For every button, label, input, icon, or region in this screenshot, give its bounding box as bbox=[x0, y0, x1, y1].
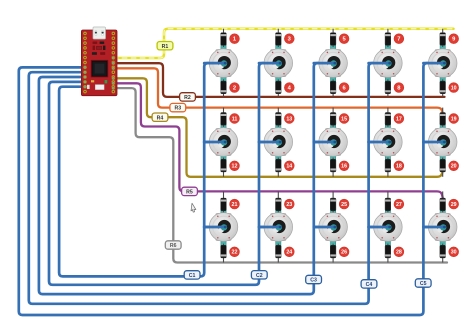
stem above SW1 bbox=[221, 45, 226, 63]
svg-text:28: 28 bbox=[396, 250, 402, 256]
svg-text:17: 17 bbox=[396, 116, 402, 122]
stem above SW3 bbox=[331, 45, 336, 63]
stem below SW12 bbox=[276, 227, 281, 246]
diode D9 bbox=[440, 29, 446, 47]
designator badge 21 bbox=[230, 199, 240, 209]
rotary encoder SW1 bbox=[209, 49, 238, 78]
designator badge 28 bbox=[394, 247, 404, 257]
blue stub into SW8 center bbox=[314, 141, 335, 144]
diode D22 bbox=[221, 244, 227, 263]
svg-text:C3: C3 bbox=[310, 278, 317, 284]
wire C4 (blue column net) bbox=[29, 63, 388, 304]
designator badge 16 bbox=[339, 161, 349, 171]
blue stub into SW10 center bbox=[423, 141, 444, 144]
wire R1 (yellow row net) bbox=[113, 29, 453, 58]
svg-text:R3: R3 bbox=[174, 106, 181, 112]
designator badge 19 bbox=[449, 114, 459, 124]
stem above SW5 bbox=[440, 45, 445, 63]
wire R5 (purple row net) bbox=[113, 83, 442, 197]
diode D27 bbox=[385, 191, 391, 212]
stem below SW11 bbox=[221, 227, 226, 246]
designator badge 9 bbox=[449, 34, 459, 44]
wire R3 (orange row net) bbox=[113, 68, 442, 113]
rotary encoder SW3 bbox=[319, 49, 348, 78]
designator badge 24 bbox=[284, 247, 294, 257]
svg-text:16: 16 bbox=[341, 164, 347, 170]
stem above SW4 bbox=[385, 45, 390, 63]
diode D3 bbox=[276, 29, 282, 47]
label C2 bbox=[251, 271, 267, 279]
stem above SW12 bbox=[276, 210, 281, 227]
designator badge 17 bbox=[394, 114, 404, 124]
svg-text:18: 18 bbox=[396, 164, 402, 170]
stem above SW11 bbox=[221, 210, 226, 227]
designator badge 29 bbox=[449, 199, 459, 209]
diode D7 bbox=[385, 29, 391, 47]
rotary encoder SW8 bbox=[319, 128, 348, 157]
connected pads bbox=[83, 56, 115, 89]
designator badge 1 bbox=[230, 34, 240, 44]
diode D14 bbox=[276, 158, 282, 177]
designator badge 18 bbox=[394, 161, 404, 171]
diode D11 bbox=[221, 108, 227, 127]
stem above SW9 bbox=[385, 125, 390, 142]
svg-text:22: 22 bbox=[232, 250, 238, 256]
diode D28 bbox=[385, 244, 391, 263]
svg-text:15: 15 bbox=[341, 116, 347, 122]
stem above SW2 bbox=[276, 45, 281, 63]
rotary encoder SW12 bbox=[264, 213, 293, 242]
diode D20 bbox=[440, 158, 446, 177]
designator badge 7 bbox=[394, 34, 404, 44]
stem above SW14 bbox=[385, 210, 390, 227]
silkscreen box bbox=[87, 80, 107, 90]
diode D12 bbox=[221, 158, 227, 177]
diode D8 bbox=[385, 79, 391, 97]
designator badge 30 bbox=[449, 247, 459, 257]
svg-text:10: 10 bbox=[451, 86, 457, 92]
stem below SW6 bbox=[221, 142, 226, 160]
svg-text:24: 24 bbox=[286, 250, 292, 256]
svg-text:C5: C5 bbox=[420, 281, 427, 287]
diode D5 bbox=[330, 29, 336, 47]
stem above SW8 bbox=[331, 125, 336, 142]
wire C3 (blue column net) bbox=[39, 63, 333, 294]
diode D23 bbox=[276, 191, 282, 212]
stem below SW2 bbox=[276, 63, 281, 81]
diode D24 bbox=[276, 244, 282, 263]
svg-text:R6: R6 bbox=[170, 243, 177, 249]
diode D4 bbox=[276, 79, 282, 97]
stem below SW1 bbox=[221, 63, 226, 81]
blue stub into SW3 center bbox=[314, 62, 335, 65]
stem below SW7 bbox=[276, 142, 281, 160]
rotary encoder SW15 bbox=[428, 213, 457, 242]
blue stub into SW2 center bbox=[259, 62, 280, 65]
designator badge 5 bbox=[339, 34, 349, 44]
rotary encoder SW6 bbox=[209, 128, 238, 157]
designator badge 11 bbox=[230, 114, 240, 124]
designator badge 25 bbox=[339, 199, 349, 209]
svg-text:27: 27 bbox=[396, 202, 402, 208]
blue stub into SW4 center bbox=[369, 62, 390, 65]
svg-text:7: 7 bbox=[397, 37, 400, 43]
mouse cursor bbox=[191, 203, 196, 212]
stem below SW14 bbox=[385, 227, 390, 246]
blue stub into SW14 center bbox=[369, 226, 390, 229]
stem above SW13 bbox=[331, 210, 336, 227]
blue stub into SW5 center bbox=[423, 62, 444, 65]
pin pads bbox=[83, 32, 115, 94]
usb connector bbox=[93, 27, 106, 39]
label C3 bbox=[306, 275, 322, 283]
diode D18 bbox=[385, 158, 391, 177]
label C1 bbox=[184, 271, 200, 279]
diode D25 bbox=[330, 191, 336, 212]
stem below SW9 bbox=[385, 142, 390, 160]
svg-text:R2: R2 bbox=[184, 95, 191, 101]
label R1 bbox=[157, 42, 173, 50]
stem above SW10 bbox=[440, 125, 445, 142]
passives cluster bbox=[92, 42, 106, 55]
wire C1 (blue column net) bbox=[59, 63, 223, 276]
svg-text:13: 13 bbox=[286, 116, 292, 122]
rotary encoder SW5 bbox=[428, 49, 457, 78]
rotary encoder SW9 bbox=[374, 128, 403, 157]
svg-text:26: 26 bbox=[341, 250, 347, 256]
designator badge 20 bbox=[449, 161, 459, 171]
blue stub into SW1 center bbox=[204, 62, 225, 65]
diode D6 bbox=[330, 79, 336, 97]
diode D2 bbox=[221, 79, 227, 97]
blue stub into SW7 center bbox=[259, 141, 280, 144]
blue stub into SW6 center bbox=[204, 141, 225, 144]
rotary encoder SW2 bbox=[264, 49, 293, 78]
svg-text:11: 11 bbox=[232, 116, 238, 122]
stem below SW8 bbox=[331, 142, 336, 160]
svg-text:R4: R4 bbox=[157, 115, 164, 121]
blue stub into SW15 center bbox=[423, 226, 444, 229]
designator badge 15 bbox=[339, 114, 349, 124]
designator badge 4 bbox=[284, 83, 294, 93]
label C5 bbox=[415, 279, 431, 287]
stem below SW10 bbox=[440, 142, 445, 160]
diode D29 bbox=[440, 191, 446, 212]
rotary encoder SW11 bbox=[209, 213, 238, 242]
designator badge 22 bbox=[230, 247, 240, 257]
designator badge 14 bbox=[284, 161, 294, 171]
svg-text:C1: C1 bbox=[189, 273, 196, 279]
designator badge 2 bbox=[230, 83, 240, 93]
designator badge 26 bbox=[339, 247, 349, 257]
svg-text:C2: C2 bbox=[256, 273, 263, 279]
svg-text:19: 19 bbox=[451, 116, 457, 122]
label R2 bbox=[180, 93, 196, 101]
diode D1 bbox=[221, 29, 227, 47]
stem below SW3 bbox=[331, 63, 336, 81]
stem below SW5 bbox=[440, 63, 445, 81]
stem below SW4 bbox=[385, 63, 390, 81]
svg-text:30: 30 bbox=[451, 250, 457, 256]
diode D15 bbox=[330, 108, 336, 127]
svg-text:14: 14 bbox=[286, 164, 292, 170]
label R3 bbox=[170, 103, 186, 111]
wire R6 (gray row net) bbox=[113, 88, 447, 262]
designator badge 27 bbox=[394, 199, 404, 209]
svg-text:25: 25 bbox=[341, 202, 347, 208]
designator badge 8 bbox=[394, 83, 404, 93]
designator badge 13 bbox=[284, 114, 294, 124]
rotary encoder SW4 bbox=[374, 49, 403, 78]
designator badge 6 bbox=[339, 83, 349, 93]
stem below SW13 bbox=[331, 227, 336, 246]
controller board U1 (Arduino Pro Micro) bbox=[81, 27, 117, 96]
diode D13 bbox=[276, 108, 282, 127]
blue stub into SW11 center bbox=[204, 226, 225, 229]
diode D19 bbox=[440, 108, 446, 127]
svg-text:C4: C4 bbox=[366, 282, 373, 288]
stem above SW15 bbox=[440, 210, 445, 227]
diode D16 bbox=[330, 158, 336, 177]
diode D26 bbox=[330, 244, 336, 263]
rotary encoder SW14 bbox=[374, 213, 403, 242]
rotary encoder SW7 bbox=[264, 128, 293, 157]
svg-text:20: 20 bbox=[451, 164, 457, 170]
label R4 bbox=[152, 113, 168, 121]
diode D30 bbox=[440, 244, 446, 263]
wire R2 (dark red row net) bbox=[113, 63, 444, 97]
svg-text:23: 23 bbox=[286, 202, 292, 208]
wire C2 (blue column net) bbox=[49, 63, 278, 285]
label C4 bbox=[361, 280, 377, 288]
diode D10 bbox=[440, 79, 446, 97]
svg-text:29: 29 bbox=[451, 202, 457, 208]
designator badge 23 bbox=[284, 199, 294, 209]
stem below SW15 bbox=[440, 227, 445, 246]
wire C5 (blue column net) bbox=[19, 63, 443, 315]
svg-text:12: 12 bbox=[232, 164, 238, 170]
diode D21 bbox=[221, 191, 227, 212]
rotary encoder SW10 bbox=[428, 128, 457, 157]
wire R4 (olive row net) bbox=[113, 78, 442, 177]
svg-text:21: 21 bbox=[232, 202, 238, 208]
label R5 bbox=[182, 187, 198, 195]
stem above SW6 bbox=[221, 125, 226, 142]
rotary encoder SW13 bbox=[319, 213, 348, 242]
designator badge 12 bbox=[230, 161, 240, 171]
svg-text:R5: R5 bbox=[186, 190, 193, 196]
blue stub into SW12 center bbox=[259, 226, 280, 229]
diode D17 bbox=[385, 108, 391, 127]
stem above SW7 bbox=[276, 125, 281, 142]
designator badge 3 bbox=[284, 34, 294, 44]
svg-text:R1: R1 bbox=[162, 44, 169, 50]
blue stub into SW9 center bbox=[369, 141, 390, 144]
designator badge 10 bbox=[449, 83, 459, 93]
svg-text:2: 2 bbox=[233, 86, 236, 92]
label R6 bbox=[165, 241, 181, 249]
blue stub into SW13 center bbox=[314, 226, 335, 229]
mcu chip bbox=[91, 60, 108, 77]
